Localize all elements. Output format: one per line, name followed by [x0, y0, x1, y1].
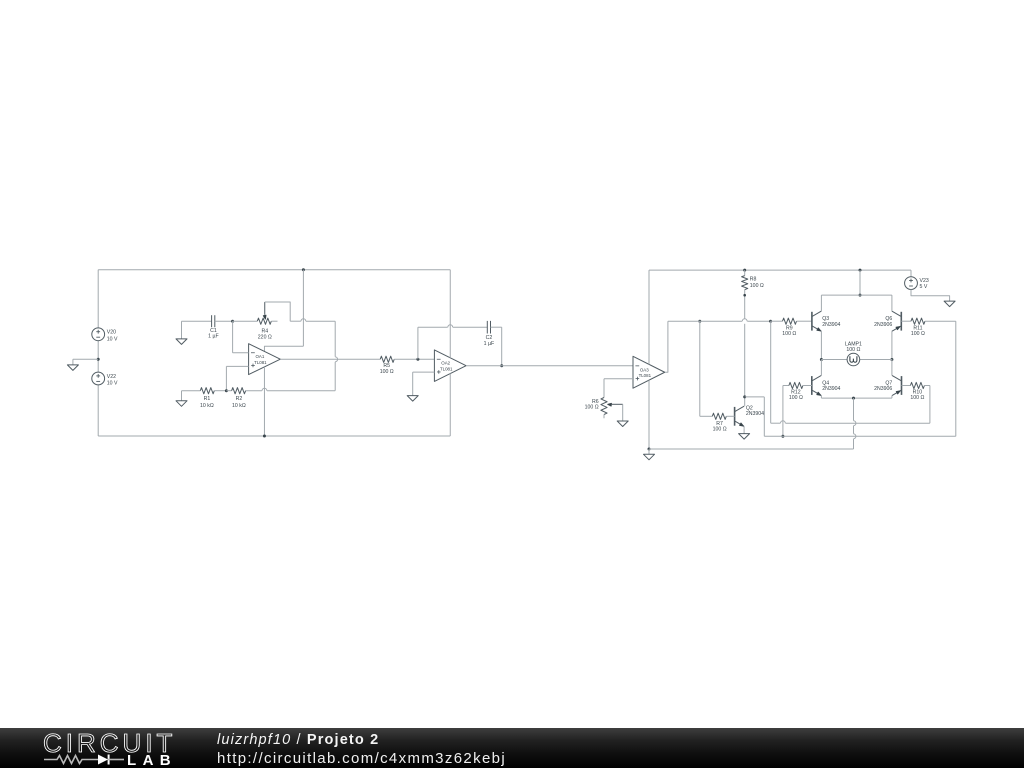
svg-text:TL081: TL081 — [440, 366, 453, 371]
svg-text:2N3906: 2N3906 — [874, 386, 892, 392]
svg-text:220 Ω: 220 Ω — [258, 334, 272, 340]
svg-text:R2: R2 — [236, 396, 243, 402]
svg-text:100 Ω: 100 Ω — [911, 331, 925, 337]
svg-text:V22: V22 — [107, 374, 116, 380]
svg-text:1 µF: 1 µF — [484, 341, 494, 347]
svg-text:100 Ω: 100 Ω — [585, 405, 599, 411]
svg-text:R1: R1 — [204, 396, 211, 402]
svg-text:5 V: 5 V — [920, 284, 928, 290]
svg-text:LAB: LAB — [127, 752, 177, 768]
svg-text:V20: V20 — [107, 330, 116, 336]
svg-text:100 Ω: 100 Ω — [713, 426, 727, 432]
svg-text:OA3: OA3 — [640, 367, 649, 372]
svg-text:10 kΩ: 10 kΩ — [200, 403, 214, 409]
svg-text:100 Ω: 100 Ω — [750, 283, 764, 289]
svg-text:100 Ω: 100 Ω — [910, 395, 924, 401]
svg-text:2N3904: 2N3904 — [746, 411, 764, 417]
svg-text:1 µF: 1 µF — [208, 334, 218, 340]
svg-text:100 Ω: 100 Ω — [846, 347, 860, 353]
svg-text:10 kΩ: 10 kΩ — [232, 403, 246, 409]
svg-text:V23: V23 — [920, 278, 929, 284]
svg-text:R8: R8 — [750, 277, 757, 283]
svg-text:TL081: TL081 — [639, 373, 652, 378]
svg-text:TL081: TL081 — [254, 360, 267, 365]
svg-text:OA1: OA1 — [256, 354, 265, 359]
svg-text:2N3904: 2N3904 — [822, 322, 840, 328]
svg-text:10 V: 10 V — [107, 336, 118, 342]
svg-text:100 Ω: 100 Ω — [789, 395, 803, 401]
svg-text:100 Ω: 100 Ω — [782, 331, 796, 337]
svg-text:2N3906: 2N3906 — [874, 322, 892, 328]
svg-text:OA2: OA2 — [441, 361, 450, 366]
svg-text:2N3904: 2N3904 — [822, 386, 840, 392]
svg-text:100 Ω: 100 Ω — [380, 369, 394, 375]
svg-text:10 V: 10 V — [107, 381, 118, 387]
